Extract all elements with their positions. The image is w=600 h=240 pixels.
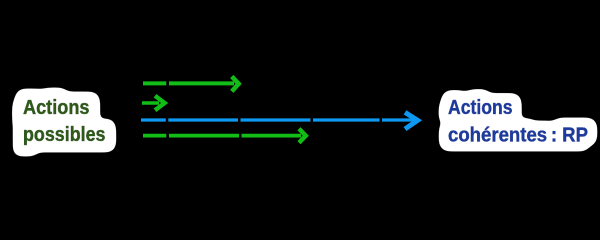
svg-text:cohérentes : RP: cohérentes : RP [448,125,588,147]
svg-text:Actions: Actions [448,97,513,119]
svg-text:possibles: possibles [23,124,106,146]
svg-text:Actions: Actions [23,97,90,119]
